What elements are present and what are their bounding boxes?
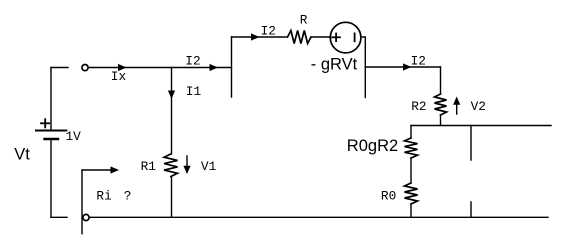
svg-text:Ri: Ri: [96, 189, 112, 204]
resistor R: [288, 31, 312, 44]
arrow I1: [168, 91, 175, 100]
wire node rail (middle right): [411, 125, 551, 127]
svg-text:Vt: Vt: [14, 146, 30, 164]
svg-text:V1: V1: [201, 159, 217, 174]
svg-text:I1: I1: [186, 84, 202, 99]
wire top branch to resistor R: [232, 36, 288, 38]
svg-text:?: ?: [124, 189, 132, 204]
arrow I2 (top branch): [251, 33, 260, 40]
wire branch to R2: [365, 66, 440, 68]
svg-text:R: R: [300, 13, 308, 28]
wire stub below mid rail: [470, 126, 472, 161]
wire stub above bottom rail: [470, 202, 472, 217]
svg-text:1V: 1V: [66, 129, 82, 144]
svg-text:Ix: Ix: [111, 69, 127, 84]
arrow Ix: [118, 64, 127, 71]
wire R to source: [311, 36, 330, 38]
wire battery bottom to terminal: [51, 216, 67, 218]
wire bottom rail: [90, 216, 548, 218]
arrow V2: [453, 97, 460, 115]
arrow V1: [183, 156, 190, 174]
wire battery top to terminal: [51, 67, 68, 69]
svg-text:R0gR2: R0gR2: [347, 137, 398, 155]
svg-text:R2: R2: [411, 99, 426, 114]
wire between resistors: [410, 158, 412, 183]
wire to resistor R0gR2: [410, 126, 412, 139]
svg-text:I2: I2: [261, 23, 276, 38]
resistor R0: [405, 183, 418, 204]
wire I1 branch down to R1: [171, 68, 173, 155]
wire R2 top lead: [440, 67, 442, 94]
svg-text:I2: I2: [185, 54, 200, 69]
arrow I2 (mid wire): [210, 64, 219, 71]
wire R2 bottom lead: [440, 115, 442, 126]
wire R1 bottom to ground rail: [171, 177, 173, 218]
terminal (open circle, bottom left): [83, 214, 89, 220]
svg-text:R1: R1: [141, 159, 157, 174]
resistor R2: [435, 94, 447, 115]
terminal (open circle, top left): [82, 65, 88, 71]
dependent source U1 (-gRVt): [330, 22, 361, 53]
wire node stub (vertical at node A): [231, 37, 233, 97]
wire vertical at bottom terminal: [81, 170, 83, 234]
wire main horizontal (terminal to node): [89, 67, 232, 69]
voltage source Vt (battery): [36, 68, 66, 218]
arrow Ri: [82, 166, 119, 173]
wire R0 bottom lead: [410, 204, 412, 217]
resistor R0gR2: [405, 138, 418, 158]
svg-text:R0: R0: [381, 189, 396, 204]
svg-text:I2: I2: [411, 53, 426, 68]
resistor R1: [164, 154, 177, 177]
svg-text:V2: V2: [471, 99, 486, 114]
arrow I2 (right branch): [403, 63, 412, 70]
svg-text:- gRVt: - gRVt: [311, 56, 358, 74]
wire source right lead and stub: [361, 37, 365, 98]
